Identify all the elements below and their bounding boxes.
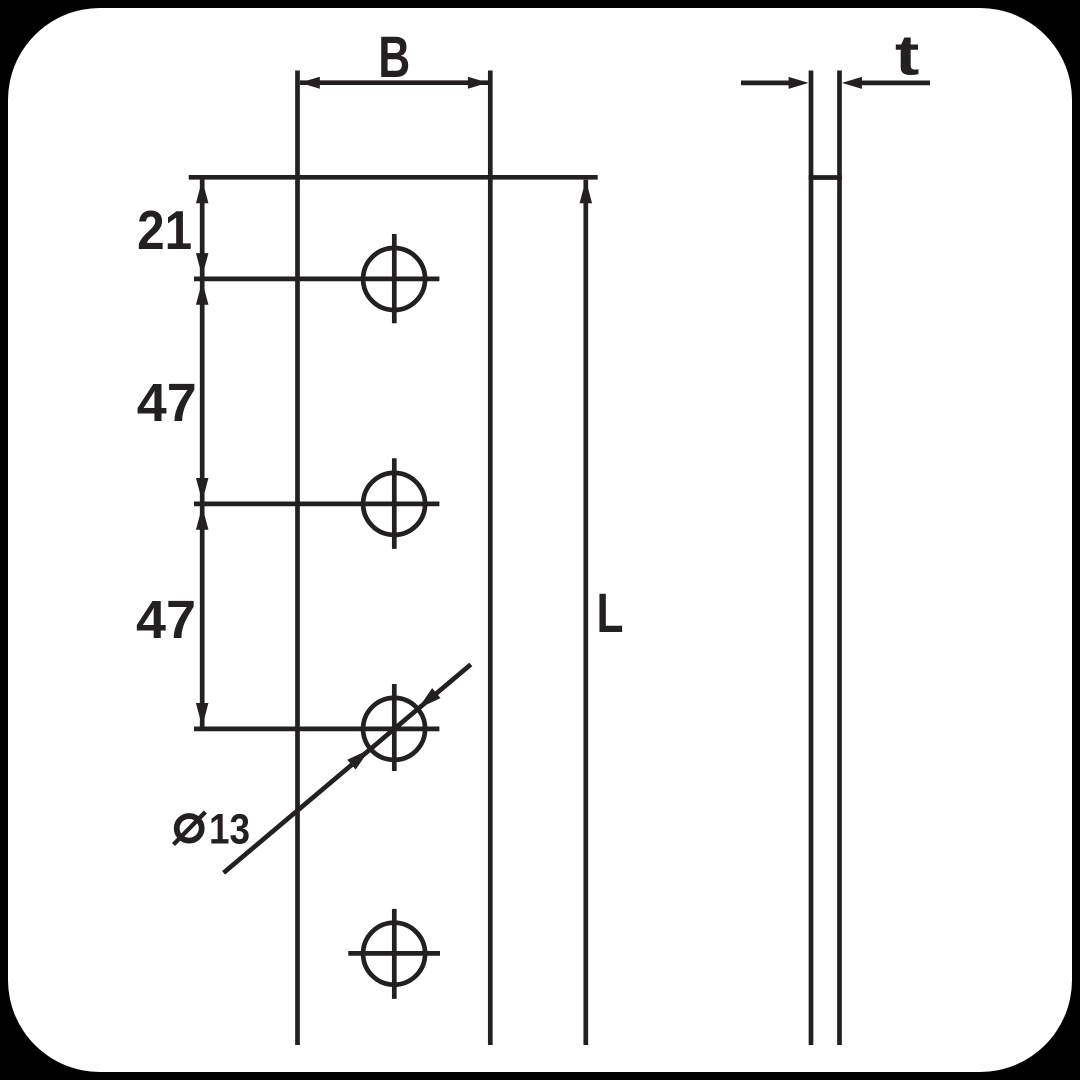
hole 1 center line vertical — [392, 234, 397, 323]
hole 3 circle — [363, 698, 425, 760]
left dimension line (21/47/47) — [200, 177, 205, 729]
side view right line — [837, 71, 842, 1046]
hole 1 circle — [363, 248, 425, 310]
svg-text:47: 47 — [137, 373, 197, 433]
svg-text:B: B — [378, 25, 410, 90]
svg-text:13: 13 — [209, 805, 250, 853]
arrowhead leader lower (pointing up-right) — [347, 749, 370, 769]
plate right edge line — [488, 71, 493, 1046]
hole 4 center line vertical — [392, 909, 397, 999]
dimension line L — [583, 180, 588, 1045]
arrowhead 47a top (up) — [196, 281, 209, 305]
arrowhead B left — [300, 77, 320, 89]
side view left line — [809, 71, 814, 1046]
arrowhead B right — [468, 77, 488, 89]
arrowhead 47b bottom (down) — [196, 703, 209, 727]
arrowhead 47b top (up) — [196, 506, 209, 530]
hole 1 center line horizontal — [194, 277, 439, 282]
dimension line t left segment — [741, 81, 800, 86]
hole 2 center line horizontal — [194, 502, 439, 507]
svg-text:L: L — [597, 582, 624, 644]
arrowhead leader upper (pointing down-left) — [418, 688, 441, 708]
hole 4 center line horizontal — [348, 951, 440, 956]
dimension line t right segment — [850, 81, 930, 86]
hole 3 center line vertical — [392, 684, 397, 771]
label Ø (diameter symbol of Ø13) — [174, 812, 206, 845]
arrowhead 47a bottom (down) — [196, 478, 209, 502]
hole 2 circle — [363, 473, 425, 535]
hole 4 circle — [363, 923, 425, 985]
arrowhead 21 top (up) — [196, 180, 209, 204]
svg-text:21: 21 — [137, 200, 192, 261]
arrowhead t left (pointing right) — [789, 77, 809, 89]
dimension line B — [300, 80, 488, 85]
arrowhead t right (pointing left) — [842, 77, 862, 89]
arrowhead 21 bottom (down) — [196, 253, 209, 277]
arrowhead L top (up) — [580, 180, 593, 204]
svg-text:t: t — [895, 24, 920, 88]
plate left edge line — [295, 71, 300, 1046]
svg-text:47: 47 — [136, 590, 196, 650]
leader line for hole diameter — [224, 664, 471, 872]
plate top edge line — [189, 175, 598, 180]
hole 3 center line horizontal — [194, 727, 439, 732]
side view top tick — [809, 175, 843, 180]
hole 2 center line vertical — [392, 458, 397, 549]
